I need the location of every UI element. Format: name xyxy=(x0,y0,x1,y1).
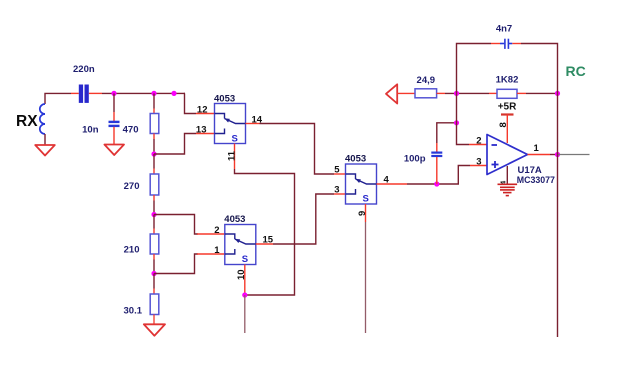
wire S-net dangle left xyxy=(244,295,246,333)
wire pin15 to pin3 xyxy=(273,194,334,244)
svg-text:S: S xyxy=(363,194,369,205)
op-amp U17A triangle xyxy=(487,135,528,175)
svg-text:MC33077: MC33077 xyxy=(517,175,555,185)
svg-text:S: S xyxy=(242,254,248,265)
wire port to resistor xyxy=(397,92,415,94)
svg-text:13: 13 xyxy=(196,125,207,136)
svg-text:4: 4 xyxy=(384,175,390,186)
node junction inv input xyxy=(454,120,459,125)
pin 3 stub xyxy=(470,165,487,167)
ground under 10n xyxy=(104,145,124,156)
svg-text:5: 5 xyxy=(334,165,340,176)
svg-text:8: 8 xyxy=(498,122,509,127)
power bar xyxy=(501,113,514,115)
wire RX top xyxy=(45,93,71,104)
node junction mid xyxy=(171,91,176,96)
wire 470 to 270 xyxy=(153,154,155,169)
wire to right node xyxy=(526,92,558,94)
wire tap to pin2 xyxy=(154,215,198,235)
resistor 210 xyxy=(150,234,159,254)
wire 210 bottom xyxy=(153,254,155,260)
wire node to pin2 xyxy=(457,93,470,144)
switch contacts U2 xyxy=(225,234,256,254)
pin 100p bottom xyxy=(436,157,438,184)
svg-text:4053: 4053 xyxy=(224,214,245,225)
resistor 470 xyxy=(150,114,159,134)
svg-text:S: S xyxy=(232,134,238,145)
wire inductor bottom xyxy=(44,134,46,145)
pin 13 stub xyxy=(196,133,215,135)
switch 4053 U1 box xyxy=(215,104,246,144)
wire 470 bottom xyxy=(153,134,155,140)
pin 11 stub xyxy=(234,144,236,170)
svg-text:+5R: +5R xyxy=(498,102,517,113)
wire feedback right riser xyxy=(521,44,558,94)
pin 4n7 right xyxy=(512,43,521,45)
pin 10n top xyxy=(113,112,115,122)
pin 14 stub xyxy=(246,123,260,125)
wire to node xyxy=(445,92,489,94)
svg-text:10: 10 xyxy=(236,269,247,280)
switch 4053 U3 box xyxy=(346,164,377,204)
svg-text:4n7: 4n7 xyxy=(496,24,512,35)
wire 10n drop xyxy=(113,93,115,112)
capacitor 10n xyxy=(109,122,120,126)
node junction at ladder top xyxy=(151,91,156,96)
svg-text:1K82: 1K82 xyxy=(496,75,519,86)
wire 100p top route xyxy=(437,123,457,143)
pin 2 stub xyxy=(469,144,487,146)
pin 4 opamp xyxy=(506,166,508,184)
node junction 100p bottom xyxy=(434,181,439,186)
svg-text:RC: RC xyxy=(566,63,586,79)
capacitor 220n xyxy=(79,85,89,103)
node junction feedback right xyxy=(555,91,560,96)
node junction 210/30.1 xyxy=(151,271,156,276)
pin 8 power xyxy=(506,115,508,144)
wire 30.1 top xyxy=(153,274,155,289)
node junction pin10 xyxy=(242,292,247,297)
svg-text:30.1: 30.1 xyxy=(124,306,143,317)
ground under RX xyxy=(35,145,55,156)
wire ladder top xyxy=(153,93,155,108)
pin 10n bottom xyxy=(113,127,115,144)
pin 100p top xyxy=(436,143,438,152)
pin 3 stub xyxy=(334,193,346,195)
svg-text:220n: 220n xyxy=(73,64,95,75)
minus marker xyxy=(492,144,498,146)
wire tap to pin13 xyxy=(154,134,196,155)
resistor 1K82 xyxy=(497,89,517,98)
svg-text:2: 2 xyxy=(476,136,481,147)
wire output gray xyxy=(558,154,590,156)
pin 9 stub xyxy=(365,204,367,222)
node junction 270/210 xyxy=(151,212,156,217)
pin 1 output stub xyxy=(528,154,551,156)
pin 1K82 right xyxy=(517,92,526,94)
node junction 470/270 xyxy=(151,151,156,156)
svg-text:15: 15 xyxy=(263,235,274,246)
wire 210 top xyxy=(153,215,155,229)
svg-text:210: 210 xyxy=(124,245,140,256)
svg-text:3: 3 xyxy=(334,185,339,196)
pin 5 stub xyxy=(334,173,346,175)
svg-text:4053: 4053 xyxy=(345,154,366,165)
wire feedback left riser xyxy=(457,44,492,94)
pin 2 stub (4053 U2) xyxy=(197,233,225,235)
svg-text:470: 470 xyxy=(123,125,139,136)
pin 4 stub xyxy=(377,183,408,185)
pin 10 stub xyxy=(244,265,246,296)
wire pin11 route xyxy=(235,169,295,295)
wire tap to pin1 xyxy=(154,254,198,274)
svg-text:100p: 100p xyxy=(404,154,426,165)
switch arrow U1 xyxy=(224,118,230,122)
wire S-net dangle right xyxy=(365,222,367,333)
ground under 30.1 xyxy=(144,324,165,335)
svg-text:24,9: 24,9 xyxy=(417,75,436,86)
svg-text:1: 1 xyxy=(534,143,540,154)
ground under opamp xyxy=(498,184,518,195)
plus marker xyxy=(492,161,499,168)
svg-text:1: 1 xyxy=(214,245,220,256)
switch contacts U1 xyxy=(215,114,246,134)
svg-text:RX: RX xyxy=(16,113,38,130)
svg-text:2: 2 xyxy=(214,225,219,236)
resistor 30.1 xyxy=(150,294,159,315)
node junction feedback left xyxy=(454,91,459,96)
node junction at 10n tap xyxy=(111,91,116,96)
wire RC vertical xyxy=(557,93,559,337)
capacitor 100p xyxy=(431,153,442,156)
wire pin4 to opamp pin3 xyxy=(407,166,470,185)
svg-text:9: 9 xyxy=(357,211,368,216)
capacitor 4n7 xyxy=(500,39,512,49)
pin 12 stub xyxy=(196,113,215,115)
wire 270 bottom xyxy=(153,195,155,201)
svg-text:10n: 10n xyxy=(82,125,99,136)
capacitor C 220n pins xyxy=(71,92,79,94)
node junction output xyxy=(555,152,560,157)
switch arrow U3 xyxy=(355,179,361,183)
wire output to node xyxy=(550,154,558,156)
pin 24,9 right xyxy=(437,92,445,94)
pin 1K82 left xyxy=(489,92,497,94)
svg-text:4053: 4053 xyxy=(214,94,235,105)
svg-text:12: 12 xyxy=(197,105,208,116)
wire 30.1 bottom xyxy=(153,315,155,325)
pin 4n7 left xyxy=(491,43,500,45)
wire 220n to junctions xyxy=(102,92,185,94)
resistor 24,9 xyxy=(415,89,437,98)
port arrow xyxy=(386,84,397,103)
resistor 270 xyxy=(150,174,159,195)
switch 4053 U2 box xyxy=(225,225,256,265)
pin 15 stub xyxy=(256,243,273,245)
wire top to pin12 xyxy=(185,93,197,113)
svg-text:11: 11 xyxy=(226,150,237,161)
svg-text:270: 270 xyxy=(124,181,140,192)
wire pin14 to pin5 xyxy=(260,124,335,175)
switch arrow U2 xyxy=(235,239,241,243)
inductor RX xyxy=(40,104,45,134)
switch contacts U3 xyxy=(346,174,377,194)
svg-text:3: 3 xyxy=(476,157,481,168)
pin 1 stub (4053 U2) xyxy=(197,253,225,255)
